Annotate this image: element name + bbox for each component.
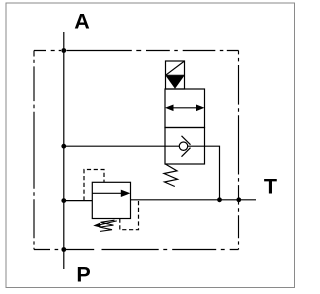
- node relief branch junction: [61, 198, 66, 203]
- node valve branch junction: [61, 144, 66, 149]
- node valve outlet junction on T line: [217, 197, 222, 202]
- wire T line horizontal: [131, 199, 257, 201]
- manifold boundary bottom edge (chain line): [34, 249, 239, 251]
- relief valve body: [92, 182, 130, 218]
- svg-text:T: T: [264, 175, 277, 199]
- check valve through line: [165, 145, 205, 147]
- valve body position 1 (free flow): [165, 89, 205, 128]
- solenoid coil box (with diagonal): [166, 61, 185, 89]
- wire valve outlet to T line: [205, 146, 220, 200]
- wire branch to solenoid valve inlet: [64, 145, 165, 147]
- valve body position 2 (check valve position): [165, 128, 205, 165]
- relief valve adjustment arrow: [93, 221, 117, 228]
- manifold boundary left edge (chain line): [33, 51, 35, 250]
- node A at boundary: [61, 48, 66, 53]
- manifold boundary right edge (chain line): [238, 51, 240, 250]
- double headed flow arrow: [165, 105, 205, 112]
- relief valve drain line (dashed): [120, 201, 139, 230]
- solenoid armature triangle: [166, 76, 185, 89]
- relief valve pilot line (dashed): [84, 170, 104, 201]
- relief valve flow arrow: [92, 190, 130, 197]
- check valve ball: [179, 142, 187, 150]
- svg-text:A: A: [74, 10, 90, 34]
- manifold boundary top edge (chain line): [34, 50, 239, 52]
- valve return spring: [164, 164, 178, 187]
- node T at boundary: [236, 197, 241, 202]
- wire P branch to relief valve inlet: [64, 200, 93, 202]
- relief valve adjustable spring: [100, 220, 115, 231]
- wire A to P (main vertical line): [63, 32, 65, 269]
- node P at boundary: [61, 247, 66, 252]
- check valve seat chevron: [182, 136, 191, 157]
- svg-text:P: P: [76, 263, 90, 287]
